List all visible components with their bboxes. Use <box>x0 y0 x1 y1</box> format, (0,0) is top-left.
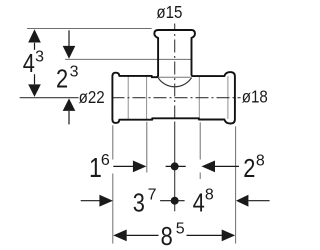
svg-text:3: 3 <box>35 48 44 65</box>
svg-text:3: 3 <box>133 189 145 218</box>
svg-text:5: 5 <box>176 221 185 238</box>
svg-text:8: 8 <box>205 187 214 204</box>
svg-text:8: 8 <box>161 222 173 250</box>
svg-text:8: 8 <box>256 153 265 170</box>
svg-text:4: 4 <box>193 189 205 218</box>
svg-text:7: 7 <box>148 186 157 203</box>
svg-text:ø18: ø18 <box>242 86 268 107</box>
svg-text:2: 2 <box>56 65 68 94</box>
svg-text:6: 6 <box>101 152 110 169</box>
svg-text:ø15: ø15 <box>156 2 182 23</box>
svg-text:4: 4 <box>23 49 35 78</box>
svg-text:3: 3 <box>70 63 79 80</box>
svg-text:2: 2 <box>243 154 255 183</box>
svg-text:ø22: ø22 <box>79 87 105 108</box>
